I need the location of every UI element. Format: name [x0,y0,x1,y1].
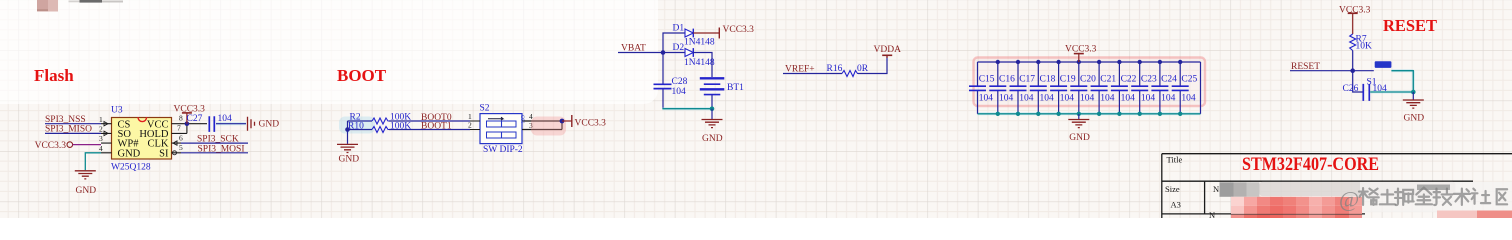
svg-text:RESET: RESET [1383,16,1438,35]
svg-text:SPI3_MISO: SPI3_MISO [45,125,92,135]
svg-text:C26: C26 [1343,84,1359,94]
svg-text:C21: C21 [1100,75,1116,85]
svg-text:BT1: BT1 [727,83,744,93]
svg-text:GND: GND [1404,114,1425,124]
svg-text:C19: C19 [1060,75,1076,85]
svg-text:5: 5 [179,143,183,152]
svg-text:VCC3.3: VCC3.3 [35,141,67,151]
svg-text:C28: C28 [672,77,688,87]
svg-text:0R: 0R [857,64,869,74]
svg-text:104: 104 [1019,93,1033,103]
svg-text:SPI3_NSS: SPI3_NSS [45,115,86,125]
svg-text:1N4148: 1N4148 [684,37,715,47]
svg-text:C27: C27 [187,114,203,124]
svg-text:3: 3 [99,134,103,143]
svg-text:N: N [1213,184,1219,194]
svg-text:1N4148: 1N4148 [684,58,715,68]
svg-text:100K: 100K [390,121,411,131]
svg-text:GND: GND [76,186,97,196]
svg-text:C17: C17 [1019,75,1035,85]
svg-text:C15: C15 [979,75,995,85]
svg-text:104: 104 [1121,93,1136,103]
svg-text:C16: C16 [999,75,1015,85]
svg-text:104: 104 [1141,93,1156,103]
svg-text:C20: C20 [1080,75,1096,85]
svg-text:D1: D1 [673,24,685,34]
svg-text:C25: C25 [1181,75,1197,85]
svg-text:VDDA: VDDA [874,45,902,55]
svg-text:104: 104 [979,93,994,103]
svg-text:Title: Title [1167,154,1183,164]
svg-text:GND: GND [1069,133,1090,143]
svg-text:GND: GND [259,120,280,130]
svg-text:104: 104 [999,93,1014,103]
svg-text:6: 6 [179,133,183,142]
svg-text:N: N [1209,210,1215,218]
svg-text:SPI3_SCK: SPI3_SCK [197,135,239,145]
svg-text:GND: GND [118,148,141,159]
svg-text:Flash: Flash [34,66,74,85]
svg-text:104: 104 [1181,93,1196,103]
svg-text:S2: S2 [480,104,490,114]
svg-text:C24: C24 [1161,75,1177,85]
svg-text:104: 104 [1060,93,1075,103]
svg-text:ON: ON [519,115,525,123]
svg-text:SI: SI [159,148,169,159]
svg-text:SPI3_MOSI: SPI3_MOSI [198,144,245,154]
svg-text:VCC3.3: VCC3.3 [575,119,607,129]
svg-text:GND: GND [702,134,723,144]
svg-text:104: 104 [672,87,687,97]
svg-text:10K: 10K [1356,42,1373,52]
svg-text:GND: GND [339,155,360,165]
svg-text:C18: C18 [1040,75,1056,85]
svg-text:SW DIP-2: SW DIP-2 [483,145,523,155]
svg-text:U3: U3 [111,106,123,116]
svg-text:C23: C23 [1141,75,1157,85]
svg-text:VCC3.3: VCC3.3 [723,25,755,35]
svg-text:104: 104 [1373,84,1388,94]
svg-text:104: 104 [1040,93,1055,103]
svg-text:A3: A3 [1171,199,1181,209]
svg-text:8: 8 [179,114,183,123]
svg-text:Size: Size [1165,184,1180,194]
svg-text:BOOT1: BOOT1 [421,122,452,132]
svg-text:104: 104 [1080,93,1095,103]
svg-text:R16: R16 [827,64,843,74]
svg-text:104: 104 [1161,93,1176,103]
svg-text:2: 2 [99,125,103,134]
svg-text:104: 104 [1100,93,1115,103]
svg-text:@: @ [1339,187,1359,212]
svg-text:STM32F407-CORE: STM32F407-CORE [1242,155,1379,175]
svg-text:BOOT: BOOT [337,66,387,85]
svg-text:VCC3.3: VCC3.3 [1065,44,1097,54]
svg-text:4: 4 [99,144,103,153]
svg-text:C22: C22 [1121,75,1137,85]
svg-text:W25Q128: W25Q128 [111,163,151,173]
svg-text:R10: R10 [348,121,364,131]
svg-text:7: 7 [177,124,181,133]
svg-text:1: 1 [99,115,103,124]
svg-text:D2: D2 [673,43,685,53]
svg-text:2: 2 [468,121,472,130]
